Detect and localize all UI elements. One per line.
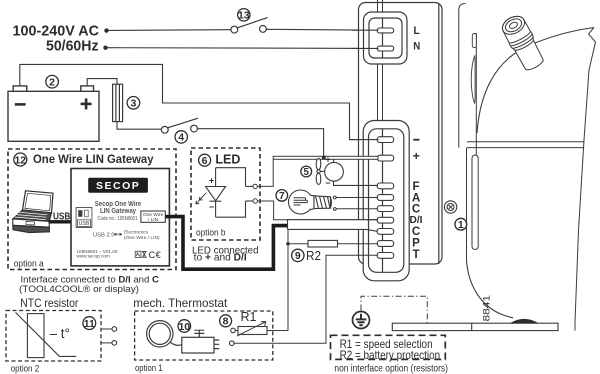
wire thermostat to terminal T [234, 255, 378, 343]
wire lamp to terminal A [336, 197, 378, 199]
label circle 7 [276, 190, 288, 203]
terminal pill N [377, 46, 394, 51]
svg-text:−: − [325, 178, 330, 188]
AC connector [364, 12, 408, 64]
pin label minus [413, 139, 419, 141]
svg-text:www.secop.com: www.secop.com [77, 253, 110, 258]
controller body [359, 3, 443, 265]
compressor base plate [392, 323, 558, 330]
thermostat option box [135, 311, 273, 360]
thermostat sensing coil [147, 321, 182, 347]
svg-text:USB 2.0: USB 2.0 [93, 233, 115, 239]
plus rail bar [273, 156, 378, 159]
svg-text:(One Wire / LIN): (One Wire / LIN) [124, 235, 160, 241]
compressor cover notch [472, 34, 476, 48]
NTC terminal circle lower [112, 341, 117, 346]
terminal pill F [377, 183, 394, 189]
svg-text:8841: 8841 [482, 295, 492, 322]
label circle 5 [301, 166, 312, 178]
wire R2 to terminal P [338, 243, 379, 245]
svg-text:L: L [414, 25, 420, 37]
svg-text:SECOP: SECOP [96, 180, 140, 192]
LED pin circle DI [253, 199, 257, 203]
NTC option box [6, 311, 101, 362]
svg-text:N: N [413, 41, 420, 53]
svg-text:3: 3 [130, 98, 136, 110]
LED D6 symbol [196, 168, 253, 218]
LED pin circle plus [253, 184, 257, 188]
terminal pill plus [377, 155, 394, 161]
One Wire LIN port box [141, 211, 165, 223]
node N source dot [103, 46, 107, 50]
cable channel wires [378, 0, 383, 269]
wire LED plus to rail [258, 160, 274, 187]
resistor R2 [308, 240, 338, 247]
wire lamp to terminal C [336, 208, 378, 210]
label circle 1 [455, 218, 467, 231]
terminal pill T [377, 253, 394, 259]
svg-text:Code no.: 105N9601: Code no.: 105N9601 [98, 216, 138, 222]
R1 left terminal circle [231, 328, 236, 333]
wire N dot to terminal N [108, 47, 379, 50]
label circle 10 [178, 320, 191, 333]
wire L into terminal (over connector) [352, 29, 379, 31]
screw [444, 201, 456, 213]
svg-text:+: + [325, 155, 330, 165]
svg-text:4: 4 [178, 132, 184, 144]
svg-text:1: 1 [458, 219, 464, 231]
compressor cover clip blade [471, 56, 475, 104]
thermostat lower terminal circle [230, 341, 235, 346]
compressor shell seam lines [467, 142, 585, 148]
wire junction to R2 [288, 243, 308, 245]
svg-text:5: 5 [303, 167, 309, 178]
svg-text:+: + [413, 149, 420, 163]
SECOP logo block [88, 178, 148, 193]
svg-text:R2: R2 [306, 248, 321, 263]
compressor shell silhouette [477, 28, 594, 134]
NTC thermistor symbol [16, 312, 77, 357]
compressor bottom curve [467, 260, 514, 318]
svg-text:12: 12 [14, 154, 26, 166]
ground dash-dot connection [361, 296, 427, 323]
thick wire gateway to D/I bar [166, 217, 289, 270]
battery plus mark [81, 98, 92, 109]
wire battery minus into terminal (over connector) [349, 139, 379, 141]
NTC terminal wire lower [101, 342, 112, 344]
fuse F3 [113, 84, 123, 121]
label circle 8 [220, 315, 232, 328]
label circle 11 [83, 317, 96, 330]
wire switch S13 to terminal L [266, 28, 378, 31]
svg-text:11: 11 [84, 318, 95, 330]
wire junction down to R1 [267, 244, 288, 331]
terminal pill D/I [377, 217, 394, 223]
svg-text:/ LIN: / LIN [148, 217, 159, 223]
ground symbol [353, 312, 370, 329]
lamp terminal A dot [333, 196, 336, 199]
DC connector [363, 121, 409, 281]
terminal pill C2 [377, 229, 394, 235]
compressor mounting plate edge [459, 4, 477, 261]
wire R1 stub [235, 330, 238, 332]
svg-text:Electronics: Electronics [124, 230, 148, 236]
label circle 12 [14, 153, 27, 166]
svg-text:non interface option (resistor: non interface option (resistors) [334, 363, 448, 374]
svg-text:10: 10 [178, 321, 190, 333]
label circle 4 [175, 131, 187, 144]
svg-text:to + and D/I: to + and D/I [194, 253, 247, 264]
svg-text:NTC resistor: NTC resistor [20, 296, 78, 310]
svg-text:option a: option a [14, 258, 45, 268]
wire N into terminal (over connector) [352, 47, 379, 49]
node L source dot [104, 28, 108, 32]
internal arrows [114, 233, 123, 236]
NTC terminal circle upper [112, 327, 117, 332]
svg-text:mech. Thermostat: mech. Thermostat [133, 296, 228, 310]
USB port box [76, 208, 92, 228]
terminal pill C [377, 206, 394, 212]
svg-text:LED: LED [215, 151, 240, 166]
lamp E7 [289, 190, 332, 214]
terminal pill minus [377, 137, 394, 143]
svg-text:+: + [209, 176, 214, 186]
wire battery plus to fuse F3 [87, 79, 117, 86]
junction dot node C [286, 242, 290, 246]
label circle 3 [127, 97, 140, 110]
svg-text:8: 8 [223, 316, 229, 328]
NTC terminal wire upper [101, 328, 112, 330]
R1 arrow [237, 322, 266, 337]
svg-text:7: 7 [279, 191, 285, 202]
cable bar to D/I and C [288, 220, 379, 232]
svg-text:R2 = battery protection: R2 = battery protection [340, 348, 441, 362]
LED option box [191, 148, 260, 240]
svg-text:9: 9 [295, 250, 301, 262]
svg-text:T: T [412, 248, 419, 261]
svg-text:– t°: – t° [50, 326, 70, 341]
thermostat body [182, 330, 220, 353]
terminal pill L [377, 28, 394, 33]
svg-text:−: − [209, 202, 214, 212]
svg-text:6: 6 [202, 155, 208, 167]
svg-text:option b: option b [196, 228, 226, 238]
label circle 6 [199, 154, 211, 167]
gateway option box [8, 149, 176, 270]
label circle 2 [46, 75, 59, 88]
resistor R1 [238, 327, 267, 335]
laptop PC [13, 191, 53, 233]
battery minus mark [15, 103, 26, 106]
legend box [331, 335, 446, 359]
wire switch S4 to plus rail [197, 129, 323, 157]
fan M5 [316, 158, 378, 185]
svg-text:LIN Gateway: LIN Gateway [100, 206, 137, 215]
label circle 13 [238, 9, 250, 22]
junction dot switch feed on plus rail [322, 156, 326, 160]
wire battery minus to DC minus terminal [20, 64, 378, 139]
battery B1 [8, 86, 99, 141]
wire LED to terminal D/I [258, 201, 379, 220]
svg-text:(TOOL4COOL® or display): (TOOL4COOL® or display) [19, 284, 139, 295]
switch S4 [161, 118, 198, 133]
svg-text:13: 13 [238, 10, 250, 22]
lamp terminal C dot [333, 208, 336, 211]
svg-text:option 1: option 1 [135, 363, 163, 373]
wire fuse F3 to switch S4 [117, 122, 161, 130]
device certification marks [135, 250, 161, 260]
svg-text:option 2: option 2 [11, 363, 40, 373]
svg-text:50/60Hz: 50/60Hz [46, 38, 99, 55]
svg-text:2: 2 [49, 77, 55, 89]
svg-text:C€: C€ [149, 250, 162, 260]
compressor foot grommet [512, 319, 538, 323]
compressor cover clip slot [472, 155, 478, 250]
svg-text:USB: USB [79, 221, 90, 227]
wire junction to cable bar [287, 229, 289, 243]
terminal pill P [377, 241, 394, 247]
terminal pill A [377, 195, 394, 201]
switch S13 [231, 18, 268, 33]
compressor shell torn edge [575, 28, 596, 331]
svg-text:One Wire LIN Gateway: One Wire LIN Gateway [33, 152, 154, 166]
compressor suction tube [499, 12, 547, 73]
USB cable wire [49, 220, 77, 223]
wire L dot to switch S13 [108, 29, 231, 32]
label circle 9 [292, 249, 304, 262]
gateway device box [71, 169, 169, 266]
